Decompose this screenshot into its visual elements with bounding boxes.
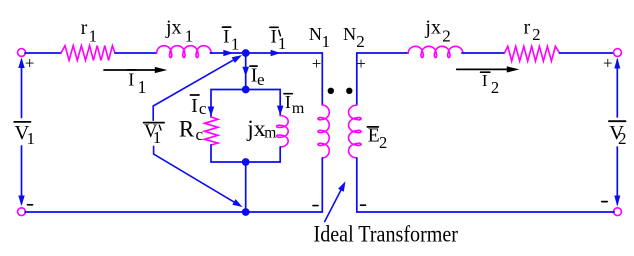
wire bbox=[115, 52, 157, 54]
label V1' bbox=[144, 122, 165, 147]
resistor r2 bbox=[505, 46, 560, 61]
svg-text:Ideal Transformer: Ideal Transformer bbox=[314, 221, 459, 247]
wire (shunt top) bbox=[211, 89, 280, 91]
svg-text:jx: jx bbox=[165, 16, 182, 38]
wire (secondary top corner down) bbox=[356, 53, 358, 105]
current arrowhead I'1 (on wire) bbox=[271, 50, 281, 57]
svg-text:+: + bbox=[356, 54, 366, 73]
polarity dot (secondary) bbox=[346, 88, 352, 94]
svg-text:I: I bbox=[128, 70, 134, 90]
svg-text:1: 1 bbox=[138, 77, 147, 97]
minus sign (V2) bbox=[602, 201, 607, 203]
svg-text:1: 1 bbox=[231, 34, 240, 53]
label I1 (under arrow) bbox=[128, 70, 147, 98]
svg-text:1: 1 bbox=[89, 27, 98, 46]
label N2 bbox=[343, 24, 365, 51]
svg-text:r: r bbox=[524, 17, 531, 38]
svg-text:+: + bbox=[25, 54, 35, 73]
minus sign (secondary winding) bbox=[361, 204, 366, 206]
wire (secondary top) bbox=[357, 52, 408, 54]
svg-text:2: 2 bbox=[442, 27, 451, 46]
svg-text:2: 2 bbox=[379, 133, 387, 152]
svg-text:jx: jx bbox=[246, 116, 266, 142]
svg-text:c: c bbox=[196, 125, 204, 144]
label E2 bbox=[367, 125, 387, 152]
svg-text:E: E bbox=[368, 125, 380, 146]
wire (node A down) bbox=[245, 53, 247, 90]
wire bbox=[210, 52, 322, 54]
node D (bottom bus junction) bbox=[242, 208, 250, 216]
leader arrow V1' to node D bbox=[154, 146, 243, 207]
wire (shunt bottom) bbox=[211, 161, 280, 163]
wire (Rc branch bottom) bbox=[210, 145, 212, 162]
svg-text:r: r bbox=[81, 18, 88, 39]
svg-text:jx: jx bbox=[424, 16, 441, 38]
wire (primary top corner down) bbox=[321, 53, 323, 105]
svg-text:1: 1 bbox=[278, 34, 287, 53]
svg-text:I: I bbox=[271, 27, 277, 48]
svg-text:+: + bbox=[603, 54, 613, 73]
label V2 bbox=[609, 121, 627, 148]
svg-text:I: I bbox=[285, 92, 291, 112]
wire (secondary winding to bottom bus) bbox=[356, 158, 358, 212]
svg-text:e: e bbox=[257, 70, 265, 89]
terminal T1 (V1 +) bbox=[18, 49, 26, 57]
svg-text:R: R bbox=[179, 117, 195, 142]
svg-text:N: N bbox=[309, 24, 322, 44]
svg-text:I: I bbox=[482, 71, 488, 90]
current arrowhead Ic bbox=[208, 107, 215, 117]
minus sign (V1) bbox=[28, 204, 33, 206]
inductor jx1 bbox=[157, 46, 212, 58]
svg-text:2: 2 bbox=[356, 32, 365, 51]
minus sign (primary winding) bbox=[313, 205, 318, 207]
wire bbox=[462, 52, 505, 54]
voltage arrow V2 (up) bbox=[614, 58, 620, 118]
wire bbox=[25, 52, 61, 54]
label I'1 bbox=[270, 27, 287, 54]
wire (primary bottom bus) bbox=[25, 211, 322, 213]
node A (primary junction) bbox=[242, 49, 250, 57]
svg-text:N: N bbox=[343, 24, 356, 44]
voltage arrow V1 (down) bbox=[18, 146, 24, 206]
svg-text:1: 1 bbox=[185, 26, 194, 45]
wire (Rc branch top) bbox=[210, 90, 212, 118]
svg-text:1: 1 bbox=[27, 129, 36, 148]
inductor jx2 bbox=[408, 46, 463, 57]
svg-text:2: 2 bbox=[491, 78, 499, 97]
svg-text:1: 1 bbox=[153, 128, 162, 147]
svg-text:I: I bbox=[223, 27, 229, 48]
svg-text:m: m bbox=[264, 125, 276, 142]
voltage arrow V1 (up) bbox=[18, 58, 24, 118]
label r1 bbox=[81, 18, 97, 46]
label r2 bbox=[524, 17, 541, 44]
current arrowhead Ie bbox=[242, 67, 249, 77]
wire (shunt to bottom bus) bbox=[245, 162, 247, 212]
node B (shunt top) bbox=[242, 86, 250, 94]
label jx2 bbox=[424, 16, 450, 45]
pointer arrow to ideal transformer bbox=[325, 181, 346, 221]
svg-text:m: m bbox=[292, 100, 305, 117]
svg-text:+: + bbox=[312, 54, 322, 73]
current arrowhead I1 (on wire) bbox=[223, 50, 233, 57]
wire bbox=[560, 52, 615, 54]
svg-text:1: 1 bbox=[322, 32, 331, 51]
current arrow I2 (black) bbox=[457, 66, 520, 72]
transformer secondary winding N2 bbox=[349, 105, 362, 158]
label V1 bbox=[14, 122, 35, 148]
svg-text:I: I bbox=[191, 95, 198, 117]
inductor jxm bbox=[277, 116, 289, 148]
transformer primary winding N1 bbox=[318, 105, 329, 158]
voltage arrow V2 (down) bbox=[614, 147, 620, 207]
resistor Rc bbox=[205, 117, 219, 145]
label Im bbox=[284, 92, 305, 117]
label jx1 bbox=[165, 16, 193, 45]
leader arrow V1' to node A bbox=[153, 55, 242, 120]
wire (jxm branch bottom) bbox=[279, 147, 281, 162]
wire (secondary bottom bus) bbox=[357, 211, 614, 213]
label jxm bbox=[246, 116, 276, 142]
resistor r1 bbox=[61, 46, 115, 61]
label N1 bbox=[309, 24, 330, 51]
terminal T4 (V2 -) bbox=[614, 208, 622, 216]
node C (shunt bottom) bbox=[242, 158, 250, 166]
svg-text:2: 2 bbox=[618, 129, 627, 148]
label Rc bbox=[179, 117, 204, 145]
wire (jxm branch top) bbox=[279, 90, 281, 116]
current arrow I1 (black) bbox=[104, 67, 167, 73]
label I2 bbox=[481, 71, 500, 97]
terminal T3 (V1 -) bbox=[18, 208, 26, 216]
current arrowhead Im bbox=[277, 106, 284, 116]
svg-text:2: 2 bbox=[532, 25, 540, 44]
label I1 (top) bbox=[223, 27, 240, 54]
polarity dot (primary) bbox=[328, 88, 334, 94]
label Ic bbox=[190, 95, 207, 118]
label Ie bbox=[250, 65, 265, 90]
terminal T2 (V2 +) bbox=[614, 49, 622, 57]
svg-text:c: c bbox=[199, 99, 207, 118]
wire (primary winding to bottom bus) bbox=[321, 158, 323, 212]
